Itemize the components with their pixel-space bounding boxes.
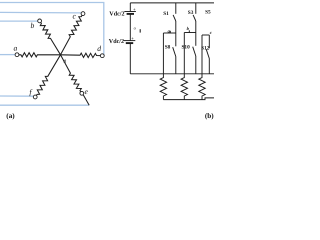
wire output bar leg 1 — [163, 32, 175, 34]
svg-text:d: d — [97, 44, 101, 53]
node tick phase a — [169, 31, 171, 33]
svg-text:S8: S8 — [165, 45, 171, 51]
wire blue lead to f — [0, 95, 34, 97]
svg-text:a: a — [14, 44, 18, 53]
svg-text:S5: S5 — [205, 9, 211, 15]
svg-text:c: c — [210, 30, 212, 35]
wire blue lead to e — [0, 104, 89, 106]
svg-text:(b): (b) — [205, 112, 214, 120]
resistor R3 (load) — [199, 74, 205, 100]
wire output bar leg 2 — [184, 32, 196, 34]
switch S10 blade — [193, 47, 196, 56]
node tick phase b — [188, 30, 190, 32]
wire blue lead to c — [0, 11, 81, 14]
wire phase b output column — [183, 33, 185, 75]
svg-text:S10: S10 — [181, 44, 190, 50]
svg-text:+: + — [133, 7, 136, 12]
terminal e — [80, 91, 84, 95]
switch S8 upper stub — [175, 33, 177, 46]
switch S3 upper contact wire — [195, 3, 197, 14]
winding a (zigzag) — [19, 53, 61, 57]
svg-text:S12: S12 — [201, 45, 210, 51]
svg-text:Vdc/2: Vdc/2 — [109, 11, 124, 18]
battery V2 plates — [124, 40, 136, 42]
resistor R1 (load) — [160, 74, 166, 100]
svg-text:n: n — [63, 58, 66, 64]
wire phase c output column — [201, 35, 203, 74]
wire output bar leg 3 — [202, 34, 209, 36]
terminal b — [38, 19, 42, 23]
svg-text:(a): (a) — [6, 112, 15, 120]
switch S10 upper stub — [195, 33, 197, 46]
switch S12 blade — [206, 49, 209, 58]
current arrow i — [139, 29, 141, 32]
wire load neutral bus — [163, 98, 214, 100]
switch S3 blade — [193, 15, 196, 21]
wire S1 to output bar — [175, 21, 177, 33]
terminal d — [100, 54, 104, 58]
switch S12 lower wire — [208, 59, 210, 74]
wire blue lead to b — [0, 20, 38, 22]
terminal c — [81, 12, 85, 16]
wire top DC rail — [130, 2, 214, 4]
switch S10 lower wire — [195, 56, 197, 74]
svg-text:S1: S1 — [163, 11, 169, 17]
svg-text:S3: S3 — [188, 10, 194, 16]
svg-text:b: b — [31, 21, 35, 30]
terminal f — [33, 95, 37, 99]
battery V1 plates — [124, 11, 136, 13]
switch S12 upper stub — [208, 35, 210, 48]
winding d (zigzag) — [61, 53, 101, 58]
wire phase a output column — [162, 33, 164, 74]
switch S1 blade — [173, 15, 176, 21]
switch S1 upper contact wire — [175, 3, 177, 14]
wire DC-link vertical (battery column) — [129, 3, 131, 12]
wire bottom DC rail — [130, 73, 214, 75]
wire e terminal to blue line — [83, 95, 89, 105]
terminal a — [15, 53, 19, 57]
wire blue lead to a — [0, 54, 15, 56]
winding c (zigzag) — [61, 15, 83, 55]
wire blue lead to d (top) — [0, 3, 104, 55]
switch S8 lower wire — [175, 57, 177, 74]
winding b (zigzag) — [40, 22, 60, 54]
winding e (zigzag) — [61, 55, 82, 92]
winding f (zigzag) — [37, 55, 61, 96]
switch S8 blade — [173, 47, 176, 56]
svg-text:Vdc/2: Vdc/2 — [109, 38, 124, 45]
svg-text:+: + — [131, 36, 134, 41]
wire S3 to output bar — [195, 21, 197, 33]
resistor R2 (load) — [181, 74, 187, 100]
